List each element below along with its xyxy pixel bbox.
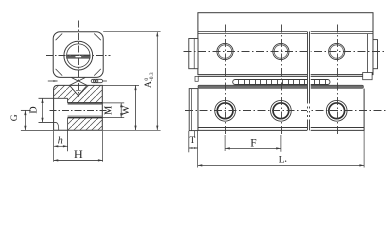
tommy bar left arrow: [53, 80, 57, 82]
dimension F arrows: [225, 147, 281, 149]
svg-text:h: h: [58, 136, 63, 147]
top view left tab: [189, 39, 198, 69]
serrated strip left step: [195, 76, 198, 81]
svg-text:F: F: [250, 138, 256, 150]
top view hole 2 outer: [273, 43, 289, 59]
hole 1 vertical centerline: [225, 25, 227, 136]
counterbore bottom line: [39, 121, 57, 123]
svg-text:M: M: [104, 105, 115, 115]
front view hole 1 inner: [217, 103, 233, 119]
hatch zone upper right with V-groove cut: [68, 85, 103, 103]
tommy bar pill ball 1: [93, 80, 95, 82]
top view left tab inner line: [193, 39, 195, 69]
hole 2 vertical centerline: [281, 25, 283, 136]
tommy bar right stub: [103, 80, 107, 82]
top view hole 1 outer: [217, 43, 233, 59]
dimension H right extension: [102, 131, 104, 162]
block bottom extension for A and W: [102, 129, 160, 131]
counterbore step face upper: [67, 98, 69, 103]
top view inner edge line 1: [198, 31, 373, 33]
threaded hole bottom line: [68, 117, 103, 119]
thread crest top: [68, 104, 103, 106]
dimension L arrows: [198, 164, 365, 166]
threaded hole top line: [68, 102, 103, 104]
butt joint line 2: [309, 32, 311, 131]
dimension H line: [54, 159, 103, 161]
dimension G arrows: [24, 110, 26, 130]
dimension G line: [24, 110, 26, 130]
V-groove left flank: [70, 85, 79, 95]
block outline: [54, 85, 103, 130]
dimension M extension top: [102, 102, 124, 104]
dimension W line: [135, 85, 137, 130]
svg-text:L: L: [279, 155, 285, 165]
front view hole 3 outer: [326, 100, 347, 121]
knob corner chamfer bottom-right: [94, 69, 101, 76]
top view right inner step line: [367, 34, 369, 75]
front view hole 2 inner: [273, 103, 289, 119]
screw slot bar: [67, 55, 91, 58]
dimension h arrows: [54, 145, 68, 147]
tommy bar right pill: [91, 79, 102, 82]
butt joint white gap: [307, 31, 311, 131]
knob top extension for A: [103, 31, 160, 33]
screw head outer circle: [64, 41, 93, 70]
top view outline: [198, 13, 373, 75]
serration teeth: [239, 80, 326, 85]
knob corner chamfer top-right: [94, 34, 101, 41]
dimension F extension 1: [224, 135, 226, 151]
svg-text:H: H: [74, 147, 83, 161]
knob corner chamfer bottom-left: [56, 69, 63, 76]
front view left edge: [197, 88, 199, 130]
svg-text:G: G: [10, 114, 20, 121]
dimension L right extension: [363, 131, 365, 168]
dimension L line: [198, 164, 365, 166]
dimension M line: [120, 103, 122, 118]
hole 3 vertical centerline: [337, 25, 339, 136]
dimension W arrows: [134, 85, 136, 130]
top view hole 2 inner: [274, 45, 287, 58]
front view horizontal centerline: [185, 110, 386, 112]
front view left tab: [189, 89, 198, 131]
dimension A arrows: [156, 32, 158, 131]
front view hole 1 outer: [215, 100, 236, 121]
screw tip flat: [76, 90, 81, 92]
top view right tab: [373, 40, 378, 69]
dimension F extension 2: [280, 135, 282, 152]
dimension G extension top tick: [21, 109, 31, 111]
dimension H left extension: [53, 148, 55, 162]
block top extension for W: [102, 84, 139, 86]
dimension F line: [225, 147, 281, 149]
svg-text:W: W: [121, 105, 132, 115]
bottom notch fillet: [56, 122, 59, 130]
dimension M extension bottom: [102, 117, 124, 119]
knob horizontal centerline: [46, 55, 111, 57]
knob body (rounded square): [53, 32, 103, 78]
tommy bar left end: [48, 80, 58, 82]
dimension T extensions: [188, 131, 190, 152]
top view hole 3 inner: [330, 45, 343, 58]
top view bottom second line: [198, 75, 363, 77]
dimension H arrows: [54, 159, 103, 161]
screw cone edge left: [71, 78, 87, 86]
top view hole 1 inner: [218, 45, 231, 58]
dimension M arrows: [120, 103, 122, 118]
hatch zone above counterbore: [54, 85, 68, 97]
top view inner edge line 2: [198, 33, 373, 35]
butt joint line 1: [307, 32, 309, 131]
counterbore top line: [39, 97, 68, 99]
dimension h extensions: [53, 131, 55, 148]
counterbore step face lower and h extension: [67, 118, 69, 152]
hole horizontal centerline: [50, 110, 111, 112]
dimension L left extension: [197, 131, 199, 168]
knob corner chamfer top-left: [56, 34, 63, 41]
top view hole 3 outer: [329, 43, 345, 59]
front view hole 3 inner: [329, 103, 345, 119]
label L tiny mark: [285, 161, 286, 162]
screw head inner circle: [67, 44, 90, 67]
front view bottom line 2: [198, 129, 364, 131]
top view right end step box: [363, 73, 372, 80]
V-groove right flank: [78, 85, 87, 95]
front view left tab inner line: [190, 89, 192, 131]
serrated strip plate: [233, 80, 330, 85]
front view right edge: [363, 89, 365, 131]
dimension D arrows: [41, 98, 43, 122]
thread crest bottom: [68, 115, 103, 117]
tommy bar pill ball 2: [96, 80, 98, 82]
dimension h line: [54, 145, 68, 147]
front view bottom line 1: [198, 127, 364, 129]
front view hole 2 outer: [271, 100, 292, 121]
svg-text:T: T: [189, 136, 195, 146]
front view serrated top edge thick band: [198, 85, 363, 88]
screw cone edge right: [70, 78, 86, 86]
hatch zone lower right: [68, 118, 103, 131]
dimension A line: [156, 32, 158, 131]
screw slot opening: [75, 56, 81, 58]
dimension T arrows: [189, 147, 198, 149]
dimension T line: [189, 147, 198, 149]
dimension G bottom extension: [21, 129, 54, 131]
svg-text:D: D: [29, 106, 40, 113]
knob vertical centerline: [78, 21, 80, 97]
dimension D line: [42, 98, 44, 122]
top view horizontal centerline: [184, 51, 387, 53]
